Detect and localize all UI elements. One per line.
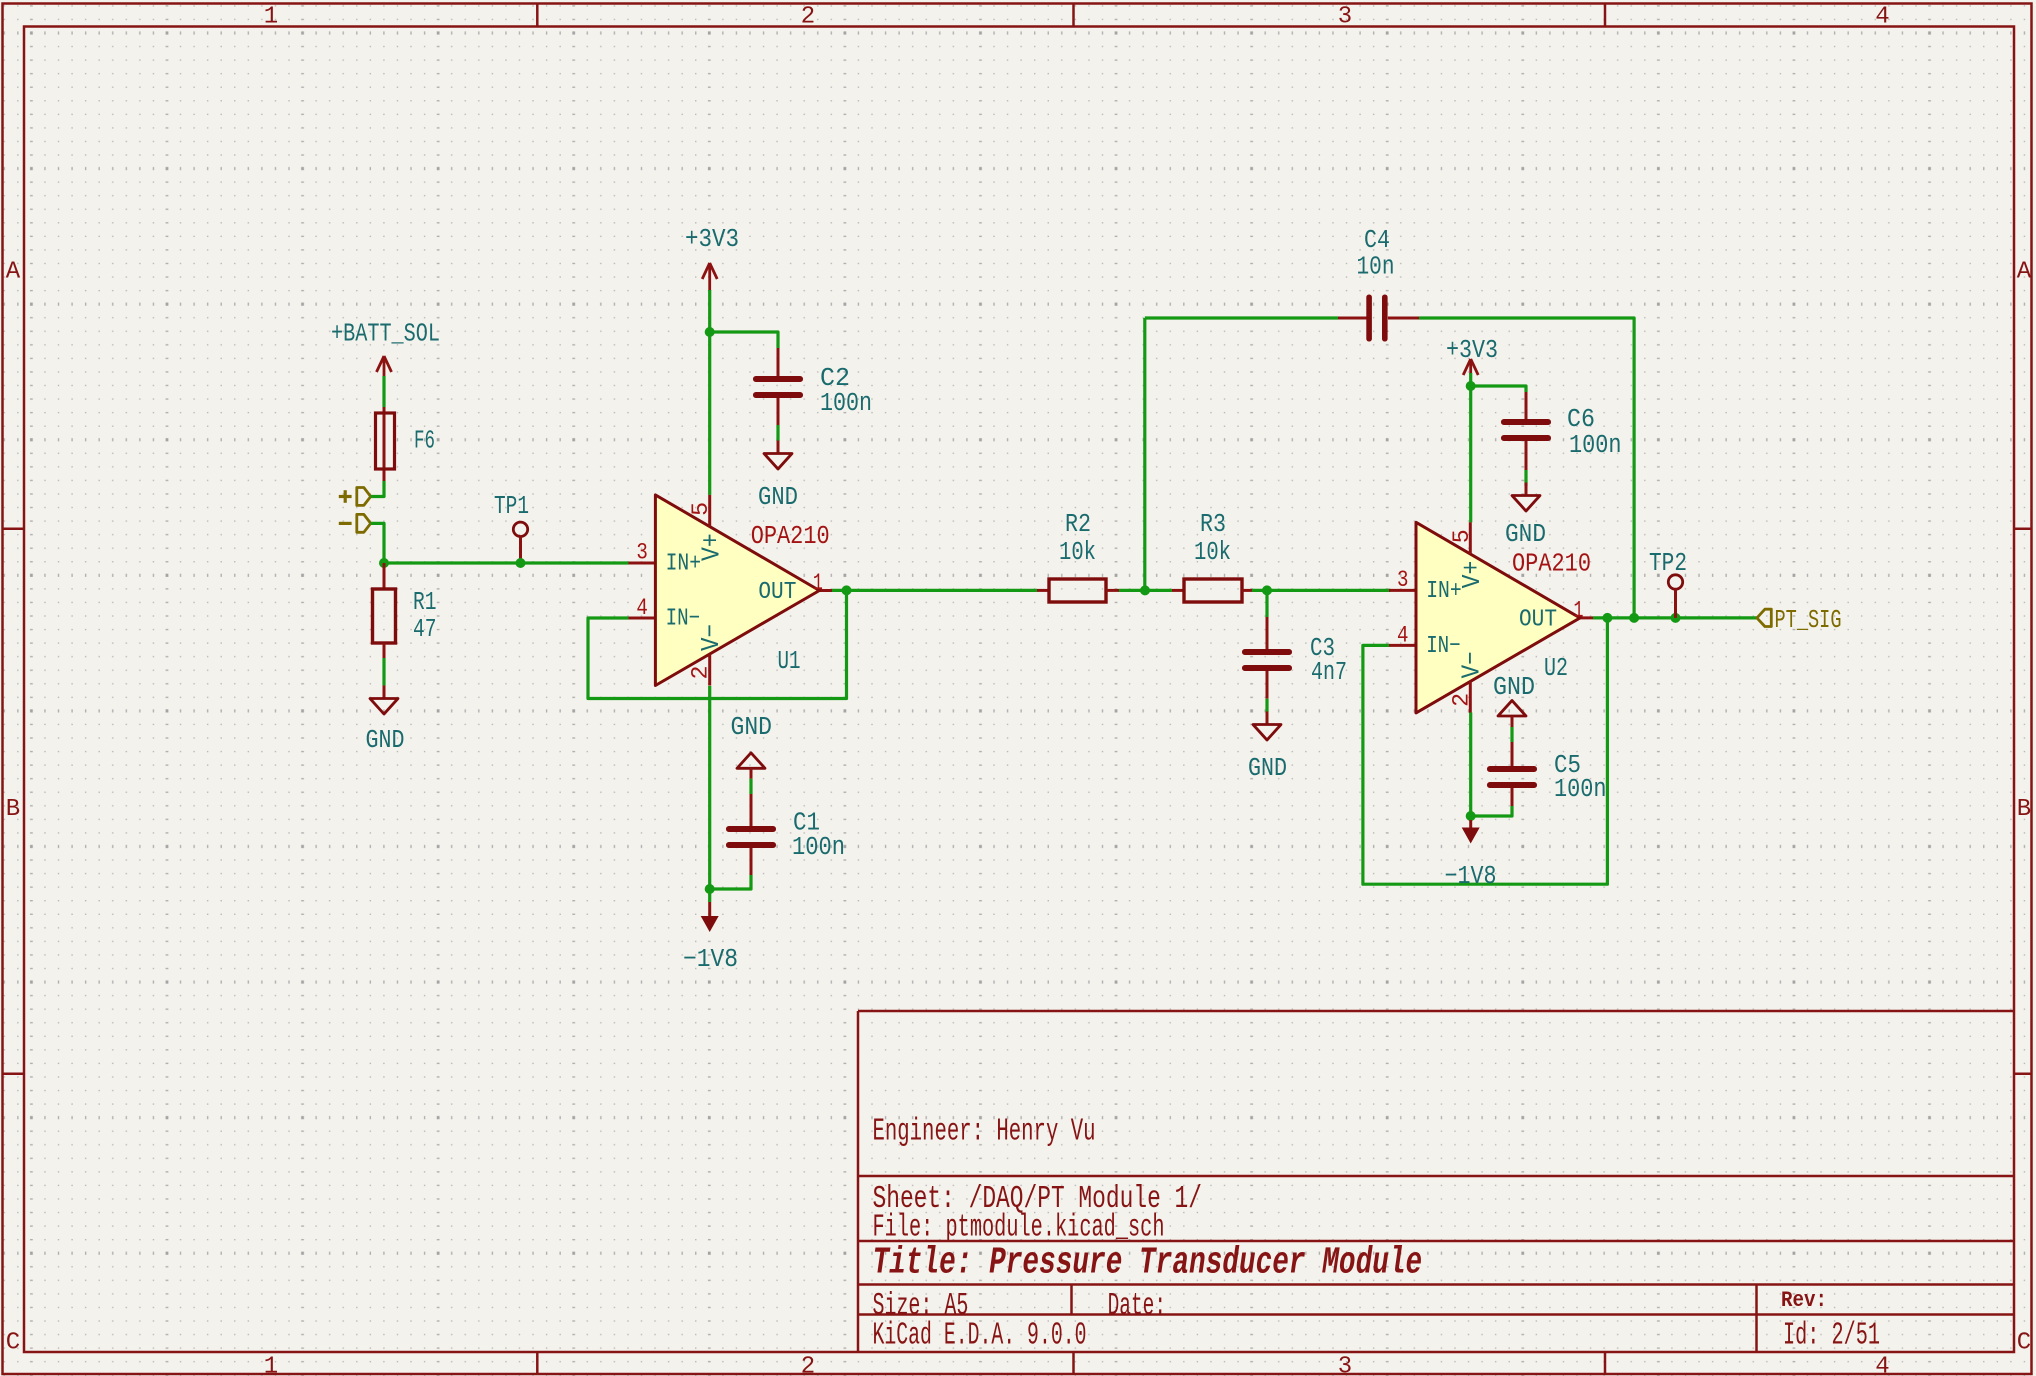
svg-text:C4: C4 bbox=[1364, 226, 1390, 255]
svg-text:V+: V+ bbox=[1457, 561, 1487, 589]
svg-text:2: 2 bbox=[1448, 693, 1474, 707]
svg-text:GND: GND bbox=[731, 713, 773, 742]
svg-text:GND: GND bbox=[1493, 673, 1535, 702]
svg-text:100n: 100n bbox=[792, 833, 845, 862]
svg-text:GND: GND bbox=[1248, 754, 1287, 783]
svg-text:4: 4 bbox=[1875, 4, 1889, 31]
svg-text:Date:: Date: bbox=[1108, 1289, 1166, 1324]
svg-text:4n7: 4n7 bbox=[1311, 658, 1347, 687]
svg-text:4: 4 bbox=[1875, 1354, 1889, 1376]
svg-text:3: 3 bbox=[636, 539, 648, 565]
svg-text:100n: 100n bbox=[1554, 775, 1607, 804]
svg-text:OUT: OUT bbox=[1519, 607, 1557, 634]
svg-text:TP1: TP1 bbox=[494, 492, 529, 521]
svg-text:Title: Pressure Transducer Mod: Title: Pressure Transducer Module bbox=[873, 1242, 1423, 1285]
svg-text:4: 4 bbox=[636, 595, 648, 621]
svg-text:File: ptmodule.kicad_sch: File: ptmodule.kicad_sch bbox=[873, 1211, 1165, 1246]
svg-text:+BATT_SOL: +BATT_SOL bbox=[331, 320, 440, 349]
svg-text:R1: R1 bbox=[413, 588, 437, 617]
svg-text:C6: C6 bbox=[1567, 405, 1595, 434]
svg-text:GND: GND bbox=[758, 483, 798, 512]
svg-text:GND: GND bbox=[366, 726, 405, 755]
svg-text:C: C bbox=[2017, 1330, 2031, 1357]
svg-text:−1V8: −1V8 bbox=[1445, 862, 1497, 891]
svg-text:TP2: TP2 bbox=[1649, 549, 1687, 578]
svg-text:A: A bbox=[6, 259, 21, 286]
svg-text:OPA210: OPA210 bbox=[1512, 550, 1591, 579]
svg-text:−1V8: −1V8 bbox=[683, 945, 738, 974]
svg-text:V−: V− bbox=[1456, 651, 1486, 678]
svg-text:100n: 100n bbox=[820, 389, 872, 418]
svg-text:V+: V+ bbox=[696, 533, 726, 561]
svg-text:47: 47 bbox=[413, 615, 437, 644]
svg-text:C: C bbox=[6, 1330, 20, 1357]
svg-text:Id: 2/51: Id: 2/51 bbox=[1783, 1318, 1880, 1353]
svg-text:B: B bbox=[6, 796, 20, 823]
svg-text:U2: U2 bbox=[1544, 654, 1568, 683]
svg-text:5: 5 bbox=[1449, 529, 1475, 543]
svg-text:1: 1 bbox=[264, 1354, 278, 1376]
svg-text:5: 5 bbox=[688, 502, 714, 516]
svg-text:R2: R2 bbox=[1065, 510, 1091, 539]
svg-text:F6: F6 bbox=[414, 427, 435, 456]
svg-text:1: 1 bbox=[1574, 597, 1584, 623]
svg-text:4: 4 bbox=[1397, 622, 1409, 648]
svg-text:1: 1 bbox=[813, 570, 823, 596]
svg-text:100n: 100n bbox=[1569, 431, 1622, 460]
svg-text:10k: 10k bbox=[1059, 538, 1096, 567]
svg-text:PT_SIG: PT_SIG bbox=[1775, 606, 1842, 635]
svg-text:3: 3 bbox=[1397, 567, 1409, 593]
svg-text:2: 2 bbox=[801, 1354, 815, 1376]
svg-text:+3V3: +3V3 bbox=[685, 225, 739, 254]
svg-text:A: A bbox=[2017, 259, 2032, 286]
svg-text:Rev:: Rev: bbox=[1781, 1287, 1827, 1313]
svg-text:OUT: OUT bbox=[758, 579, 796, 606]
svg-text:R3: R3 bbox=[1200, 510, 1226, 539]
svg-text:U1: U1 bbox=[778, 647, 801, 676]
svg-text:3: 3 bbox=[1338, 1354, 1352, 1376]
svg-text:B: B bbox=[2017, 796, 2031, 823]
svg-text:3: 3 bbox=[1338, 4, 1352, 31]
svg-text:OPA210: OPA210 bbox=[751, 522, 830, 551]
svg-text:10n: 10n bbox=[1357, 253, 1395, 282]
svg-text:10k: 10k bbox=[1194, 538, 1231, 567]
svg-text:2: 2 bbox=[801, 4, 815, 31]
svg-text:2: 2 bbox=[688, 666, 714, 680]
svg-text:Engineer: Henry Vu: Engineer: Henry Vu bbox=[873, 1115, 1096, 1150]
svg-text:GND: GND bbox=[1505, 520, 1546, 549]
svg-text:1: 1 bbox=[264, 4, 278, 31]
svg-text:V−: V− bbox=[696, 624, 726, 651]
svg-text:KiCad E.D.A. 9.0.0: KiCad E.D.A. 9.0.0 bbox=[873, 1318, 1087, 1353]
